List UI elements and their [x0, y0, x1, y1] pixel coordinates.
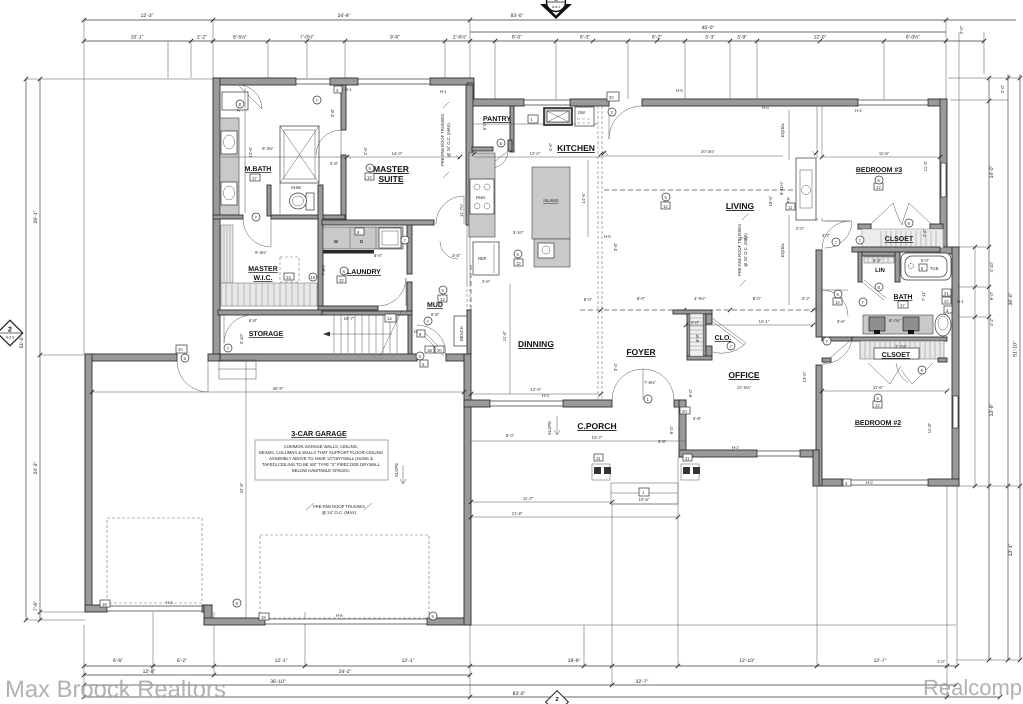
svg-text:3'-6": 3'-6" [837, 319, 846, 324]
svg-text:11: 11 [685, 456, 690, 461]
svg-text:CLO.: CLO. [715, 335, 732, 342]
svg-text:10: 10 [311, 275, 316, 280]
svg-text:24'-9": 24'-9" [338, 13, 351, 19]
svg-text:19'-9": 19'-9" [568, 658, 581, 664]
svg-text:8'-0½": 8'-0½" [906, 35, 920, 41]
svg-text:36'-0": 36'-0" [1008, 292, 1014, 305]
svg-text:45'-0": 45'-0" [702, 25, 715, 31]
svg-text:2'-0": 2'-0" [959, 25, 964, 34]
svg-text:TAPED),CEILING TO BE 5/8" TYPE: TAPED),CEILING TO BE 5/8" TYPE "X" FIREC… [262, 462, 381, 467]
svg-text:8'-0": 8'-0" [753, 296, 762, 301]
svg-text:8'-7½": 8'-7½" [889, 318, 901, 323]
svg-text:FOYER: FOYER [626, 347, 655, 357]
svg-text:12'-5½": 12'-5½" [737, 385, 752, 390]
svg-text:24'-2": 24'-2" [339, 669, 352, 675]
svg-text:PANTRY: PANTRY [483, 116, 511, 123]
svg-text:M.BATH: M.BATH [245, 166, 272, 173]
svg-text:12'-0": 12'-0" [530, 151, 541, 156]
svg-text:BATH: BATH [894, 294, 913, 301]
svg-text:H-4: H-4 [166, 600, 173, 605]
svg-text:30'-9": 30'-9" [273, 386, 284, 391]
svg-text:@ 24' O.C. (MAX): @ 24' O.C. (MAX) [446, 123, 451, 157]
svg-text:SLOPE: SLOPE [547, 421, 552, 435]
svg-text:2'-6": 2'-6" [363, 146, 368, 155]
svg-text:2'-6": 2'-6" [922, 228, 927, 237]
svg-text:26'-1": 26'-1" [33, 210, 39, 223]
svg-text:6'-2": 6'-2" [177, 658, 187, 664]
svg-text:14'-0": 14'-0" [392, 151, 403, 156]
svg-text:51'-0": 51'-0" [19, 335, 25, 348]
svg-text:TUB: TUB [930, 266, 939, 271]
svg-text:MUD: MUD [427, 302, 443, 309]
svg-text:8'-0": 8'-0" [637, 296, 646, 301]
svg-text:9'-0": 9'-0" [669, 425, 674, 434]
svg-text:BEDROOM #3: BEDROOM #3 [856, 167, 902, 174]
svg-text:11'-7½": 11'-7½" [459, 203, 464, 217]
svg-text:4'-10": 4'-10" [989, 261, 994, 272]
svg-text:W.I.C.: W.I.C. [253, 275, 272, 282]
svg-text:14'-0": 14'-0" [989, 165, 995, 178]
svg-text:32'-7": 32'-7" [636, 679, 649, 685]
svg-text:P.P.: P.P. [786, 197, 791, 204]
svg-text:D: D [360, 239, 363, 244]
svg-text:H-5: H-5 [676, 88, 683, 93]
svg-text:2'-6": 2'-6" [482, 279, 491, 284]
svg-text:21: 21 [944, 291, 949, 296]
svg-text:8'-9": 8'-9" [695, 333, 700, 342]
svg-text:9'-3½": 9'-3½" [262, 146, 274, 151]
svg-text:36'-10": 36'-10" [270, 679, 286, 685]
svg-text:13'-1": 13'-1" [1008, 543, 1014, 556]
svg-text:A-4.1: A-4.1 [552, 5, 560, 9]
svg-text:PRE-FAB ROOF TRUSSES: PRE-FAB ROOF TRUSSES [737, 224, 742, 276]
svg-text:3'-10": 3'-10" [239, 333, 244, 344]
svg-text:Max Broock Realtors: Max Broock Realtors [5, 676, 226, 703]
svg-text:ASSEMBLY ABOVE TO HAVE 1/2"DRY: ASSEMBLY ABOVE TO HAVE 1/2"DRYWALL (HUNG… [269, 456, 373, 461]
svg-text:11'-8": 11'-8" [927, 422, 932, 433]
svg-text:3'-3": 3'-3" [705, 35, 715, 41]
svg-text:4'-6": 4'-6" [548, 142, 553, 151]
svg-text:STORAGE: STORAGE [249, 331, 284, 338]
svg-text:1: 1 [554, 0, 558, 3]
svg-text:8'-0": 8'-0" [374, 253, 383, 258]
svg-text:6'-2": 6'-2" [652, 35, 662, 41]
svg-text:3'-8": 3'-8" [658, 439, 667, 444]
svg-text:14: 14 [387, 316, 392, 321]
svg-text:11: 11 [596, 456, 601, 461]
svg-text:13: 13 [286, 275, 291, 280]
svg-text:12: 12 [367, 175, 372, 180]
svg-text:12: 12 [339, 278, 344, 283]
svg-text:10'-6": 10'-6" [639, 497, 650, 502]
svg-text:11: 11 [788, 205, 793, 210]
svg-text:@ 24" O.C. (MAX): @ 24" O.C. (MAX) [322, 510, 357, 515]
svg-text:11'-2": 11'-2" [523, 496, 534, 501]
svg-text:12'-8": 12'-8" [143, 669, 156, 675]
svg-text:W: W [334, 239, 338, 244]
svg-text:12'-1": 12'-1" [275, 658, 288, 664]
svg-text:SUITE: SUITE [378, 174, 403, 184]
svg-text:12: 12 [663, 204, 668, 209]
svg-text:2'-0": 2'-0" [796, 226, 805, 231]
svg-text:4'-5½": 4'-5½" [694, 296, 706, 301]
svg-text:10'-1": 10'-1" [759, 319, 770, 324]
svg-text:3-CAR GARAGE: 3-CAR GARAGE [291, 429, 347, 438]
svg-text:11'-6": 11'-6" [879, 151, 890, 156]
svg-text:2'-0": 2'-0" [1000, 84, 1005, 93]
svg-text:BEAMS, COLUMNS & WALLS THAT SU: BEAMS, COLUMNS & WALLS THAT SUPPORT FLOO… [259, 450, 383, 455]
svg-text:8'-0": 8'-0" [512, 35, 522, 41]
svg-text:9'-8": 9'-8" [431, 312, 440, 317]
svg-text:BELOW HABITABLE SPACES.: BELOW HABITABLE SPACES. [292, 468, 350, 473]
svg-text:3'-3": 3'-3" [873, 258, 882, 263]
svg-text:12'-6": 12'-6" [248, 146, 253, 157]
svg-text:7'-6": 7'-6" [33, 601, 39, 611]
svg-text:17: 17 [252, 176, 257, 181]
svg-text:21'-8": 21'-8" [512, 511, 523, 516]
svg-text:12'-1": 12'-1" [402, 658, 415, 664]
svg-text:SLOPE: SLOPE [394, 463, 399, 477]
svg-text:19: 19 [261, 615, 266, 620]
svg-text:2'-2": 2'-2" [197, 35, 207, 41]
svg-text:3'-8": 3'-8" [693, 416, 702, 421]
svg-text:8'-0": 8'-0" [506, 433, 515, 438]
svg-text:3'-8": 3'-8" [452, 253, 461, 258]
svg-text:6'-8": 6'-8" [249, 318, 258, 323]
svg-text:12: 12 [875, 403, 880, 408]
svg-text:12: 12 [516, 261, 521, 266]
svg-text:MASTER: MASTER [373, 164, 409, 174]
svg-text:7'-8½": 7'-8½" [321, 264, 326, 276]
svg-text:ISLAND: ISLAND [543, 198, 558, 203]
svg-text:DW: DW [578, 110, 585, 115]
svg-text:KITCHEN: KITCHEN [557, 143, 595, 153]
svg-text:3'-10": 3'-10" [513, 230, 524, 235]
svg-text:C.PORCH: C.PORCH [577, 421, 616, 431]
svg-text:8'-0": 8'-0" [584, 297, 593, 302]
svg-text:12: 12 [876, 185, 881, 190]
svg-text:19'-6": 19'-6" [768, 195, 773, 206]
svg-text:5'-0": 5'-0" [921, 258, 930, 263]
svg-text:20: 20 [682, 409, 687, 414]
svg-text:MASTER: MASTER [248, 266, 278, 273]
svg-text:2'-0": 2'-0" [740, 236, 749, 241]
svg-text:Realcomp: Realcomp [923, 675, 1022, 700]
svg-text:18: 18 [427, 348, 432, 353]
svg-text:83'-0": 83'-0" [513, 691, 526, 697]
svg-text:A-2.0: A-2.0 [6, 336, 15, 340]
svg-text:14'-6": 14'-6" [581, 192, 586, 203]
svg-text:3'-8": 3'-8" [330, 161, 339, 166]
svg-text:H-3: H-3 [762, 105, 769, 110]
svg-text:LIN: LIN [875, 267, 885, 274]
svg-text:OFFICE: OFFICE [728, 370, 759, 380]
svg-text:12: 12 [440, 297, 445, 302]
svg-text:12'-10": 12'-10" [739, 658, 755, 664]
svg-text:REF: REF [478, 256, 487, 261]
svg-text:CLSOET: CLSOET [882, 352, 911, 359]
svg-text:12: 12 [835, 300, 840, 305]
svg-text:24'-8": 24'-8" [239, 482, 244, 493]
svg-text:SHW: SHW [291, 185, 301, 190]
svg-text:11'-3": 11'-3" [923, 160, 928, 171]
svg-text:DINNING: DINNING [518, 339, 554, 349]
svg-text:COMMON GARAGE WALLS, CEILING,: COMMON GARAGE WALLS, CEILING, [284, 444, 358, 449]
svg-text:1'-0": 1'-0" [937, 659, 946, 664]
svg-text:13'-9": 13'-9" [989, 403, 995, 416]
svg-text:9'-3½": 9'-3½" [255, 250, 267, 255]
svg-text:7'-0½": 7'-0½" [300, 35, 314, 41]
svg-text:7'-7½": 7'-7½" [895, 344, 907, 349]
svg-text:16'-7": 16'-7" [344, 316, 355, 321]
svg-text:PRE-FAB ROOF TRUSSES: PRE-FAB ROOF TRUSSES [440, 114, 445, 166]
svg-text:H-1: H-1 [957, 299, 964, 304]
svg-text:CLSOET: CLSOET [885, 236, 914, 243]
svg-text:83'-0": 83'-0" [511, 13, 524, 19]
svg-text:12'-7": 12'-7" [874, 658, 887, 664]
svg-text:11'-6": 11'-6" [873, 385, 884, 390]
svg-text:6'-6": 6'-6" [113, 658, 123, 664]
svg-text:12'-3": 12'-3" [141, 13, 154, 19]
svg-text:10'-2": 10'-2" [592, 435, 603, 440]
svg-text:3'-9": 3'-9" [737, 35, 747, 41]
svg-text:9'-6": 9'-6" [390, 35, 400, 41]
svg-text:51'-10": 51'-10" [1013, 341, 1019, 357]
svg-text:EQUAL: EQUAL [780, 242, 785, 257]
svg-text:H-1: H-1 [345, 87, 352, 92]
svg-text:12'-0": 12'-0" [814, 35, 827, 41]
svg-text:3'-4": 3'-4" [613, 362, 618, 371]
svg-text:2: 2 [8, 327, 12, 334]
svg-text:9'-11½": 9'-11½" [779, 181, 784, 195]
svg-text:11'-6": 11'-6" [502, 330, 507, 341]
svg-text:H-5: H-5 [604, 234, 611, 239]
svg-text:9'-5½": 9'-5½" [233, 35, 247, 41]
svg-text:19: 19 [102, 602, 107, 607]
svg-text:9'-0": 9'-0" [688, 388, 693, 397]
svg-text:20: 20 [437, 348, 442, 353]
svg-text:2'-0": 2'-0" [691, 320, 700, 325]
svg-text:6'-3": 6'-3" [580, 35, 590, 41]
svg-text:7'-6½": 7'-6½" [644, 380, 656, 385]
svg-text:9'-0": 9'-0" [989, 291, 994, 300]
svg-text:3'-8": 3'-8" [330, 108, 335, 117]
svg-text:4'-2": 4'-2" [989, 317, 994, 326]
svg-text:10'-1": 10'-1" [131, 35, 144, 41]
svg-text:H-2: H-2 [855, 108, 862, 113]
svg-text:LIVING: LIVING [726, 201, 755, 211]
svg-text:H-1: H-1 [440, 89, 447, 94]
svg-text:12'-0": 12'-0" [531, 387, 542, 392]
svg-text:H-2: H-2 [732, 445, 739, 450]
svg-text:20'-4½": 20'-4½" [701, 149, 716, 154]
svg-text:H-3: H-3 [542, 393, 549, 398]
svg-text:22: 22 [944, 299, 949, 304]
svg-text:LAUNDRY: LAUNDRY [347, 269, 381, 276]
svg-text:RNG: RNG [476, 195, 485, 200]
svg-text:BENCH: BENCH [459, 326, 464, 341]
svg-text:20: 20 [609, 95, 614, 100]
svg-text:H-5: H-5 [336, 613, 343, 618]
svg-text:7'-11": 7'-11" [921, 290, 926, 301]
svg-text:PRE-FAB ROOF TRUSSES: PRE-FAB ROOF TRUSSES [313, 504, 365, 509]
svg-text:EQUAL: EQUAL [780, 122, 785, 137]
svg-text:17: 17 [900, 303, 905, 308]
svg-text:3'-2": 3'-2" [822, 233, 831, 238]
svg-text:20: 20 [178, 347, 183, 352]
svg-text:6'-0": 6'-0" [482, 121, 487, 130]
svg-text:3'-2": 3'-2" [802, 296, 811, 301]
svg-text:BEDROOM #2: BEDROOM #2 [855, 420, 901, 427]
svg-text:H-2: H-2 [866, 480, 873, 485]
svg-text:24'-3": 24'-3" [33, 461, 39, 474]
svg-text:2'-6½": 2'-6½" [453, 35, 467, 41]
svg-text:3'-8": 3'-8" [613, 242, 618, 251]
svg-text:13'-0": 13'-0" [802, 371, 807, 382]
